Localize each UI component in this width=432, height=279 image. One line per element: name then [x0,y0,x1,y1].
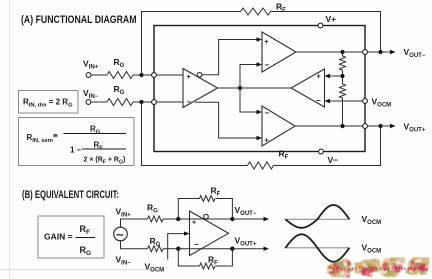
svg-text:VIN−: VIN− [83,88,99,100]
svg-text:+: + [192,220,196,227]
formula box RIN dm [19,91,79,114]
svg-text:VOCM: VOCM [362,243,382,255]
arrowhead into A3 - [257,110,263,114]
wire arrow VOUT+ (B) [232,248,264,250]
arrowhead VOCM into B1 [184,231,190,235]
resistor divider upper R [340,56,346,70]
wire A1 upper output to A2 + input [202,40,257,75]
node + input (B) [176,217,180,221]
source VS [114,227,128,241]
terminal V+ on box top [318,23,323,28]
svg-text:RG: RG [80,245,92,257]
svg-text:RG: RG [114,84,125,96]
svg-text:−: − [316,96,321,105]
svg-text:GAIN =: GAIN = [44,232,73,242]
wire RF top to VOUT- node (B) [216,199,233,220]
node - input (B) [176,247,180,251]
B1 output node circle [204,214,209,219]
op-amp A1 input stage [183,69,218,108]
svg-text:VOUT−: VOUT− [235,205,257,217]
terminal VIN+ [86,73,91,78]
node junction VIN+ feedback [139,73,143,77]
A1 upper output node circle [197,73,202,78]
wire RG1 to pin VIN+ [133,74,154,76]
wire divider to mid node [342,70,344,84]
wire bottom feedback left vertical [142,102,248,166]
node VOUT+ external junction [378,124,382,128]
formula box GAIN [38,216,104,258]
wire summing node to error amp output [240,87,291,89]
terminal VIN- [86,100,91,105]
fraction bar nested [82,148,126,150]
arrowhead VOUT+ (B) [264,247,270,251]
svg-text:VIN+: VIN+ [116,207,132,219]
op-amp B1 [190,211,229,256]
node VOUT- (B) [230,217,234,221]
svg-text:VOCM: VOCM [362,214,382,226]
wire RF bottom to VOUT+ node [274,126,381,166]
wire top feedback left vertical [142,12,241,76]
svg-text:−: − [265,109,270,118]
wire A2 output to VOUT- pin [296,51,365,53]
svg-text:RF: RF [94,141,104,152]
op-amp A2 upper output amp [262,32,296,72]
faint baseline rule [0,269,155,271]
waveform sine lower [286,234,350,261]
wire RG2 to pin VIN- [133,101,154,103]
resistor RF bottom [248,162,274,169]
node VOUT- external junction [378,50,382,54]
IC boundary box U1 [154,26,365,152]
wire through amp to VOUT- node (B) [178,218,232,220]
svg-text:−: − [265,61,270,70]
wire RF bottom to VOUT+ node (B) [216,249,233,266]
wire source to RG2 (B) [121,240,148,249]
svg-text:(A) FUNCTIONAL DIAGRAM: (A) FUNCTIONAL DIAGRAM [21,14,137,26]
svg-text:VOUT+: VOUT+ [235,236,257,248]
arrowhead into A4 - [325,99,331,103]
wire RF top to VOUT- node [271,12,381,53]
fraction bar main [64,133,127,135]
wire divider top segment [342,52,344,56]
pin VIN- on box [152,100,157,105]
svg-text:RF: RF [208,255,218,267]
resistor RF top [241,8,271,15]
node divider top junction [340,50,344,54]
svg-text:VOCM: VOCM [372,97,392,109]
wire A1 lower output to A3 + input [195,102,257,138]
wire RG2 to - node (B) [163,248,178,250]
arrowhead VOUT+ [390,124,396,128]
svg-text:VIN−: VIN− [116,255,132,267]
wire through amp to VOUT+ node (B) [178,248,232,250]
formula box RIN sem [19,118,135,166]
pin VOUT+ on box [363,124,368,129]
svg-text:RG: RG [147,203,158,215]
wire VIN+ terminal to RG1 [91,74,107,76]
wire arrow VOUT+ [381,125,391,127]
resistor divider lower R [340,84,346,98]
wire divider mid to A4 + input [330,75,343,77]
svg-text:RIN, sem≅: RIN, sem≅ [27,133,58,144]
op-amp A3 lower output amp [262,106,295,146]
waveform axis upper [284,218,349,220]
arrowhead into A2 + [257,37,263,41]
wire VIN- terminal to RG2 [91,101,107,103]
page edge tint line [9,0,11,279]
arrowhead into A2 - [257,62,263,66]
svg-text:RF: RF [80,224,91,236]
svg-text:+: + [317,74,321,81]
arrowhead VOUT- [390,50,396,54]
wire A1 output to summing node [218,87,241,89]
arrowhead into A3 + [257,136,263,140]
resistor RG2 [107,99,133,106]
svg-text:V−: V− [328,155,339,165]
feedback RF bottom loop (B) [178,249,199,266]
svg-text:VIN+: VIN+ [83,59,99,71]
resistor RG1 [107,72,133,79]
wire divider bottom segment [342,98,344,126]
svg-text:2 × (RF + RG): 2 × (RF + RG) [84,157,126,166]
wire summing node down to A3 - input [240,88,257,112]
svg-text:VOCM: VOCM [145,262,165,274]
wire RG1 to + node (B) [163,218,178,220]
op-amp A4 common-mode error amp (points left) [291,69,325,107]
wire arrow VOUT- [381,51,391,53]
node summing junction [238,86,242,90]
wire pin to op-amp A1 - input [156,101,183,103]
svg-text:∼: ∼ [116,230,124,241]
resistor RF bottom (B) [200,263,215,269]
svg-text:+: + [265,138,269,145]
fraction bar GAIN [76,237,96,239]
svg-text:1 −: 1 − [70,146,82,155]
wire pin to op-amp A1 + input [156,74,183,76]
wire A3 output to VOUT+ pin [295,125,365,127]
feedback RF top loop (B) [178,199,199,220]
pin VOCM on box [363,99,368,104]
terminal V- on box bottom [319,149,324,154]
wire summing node up to A2 - input [240,65,257,89]
resistor RF top (B) [200,196,215,202]
arrowhead into A4 + [325,74,331,78]
node VOUT+ (B) [230,247,234,251]
svg-text:V+: V+ [326,14,337,24]
node divider bottom junction [340,124,344,128]
resistor RG1 (B) [148,216,163,222]
arrowhead VOUT- (B) [264,217,270,221]
wire VOUT- pin to output node [367,51,380,53]
svg-text:(B) EQUIVALENT CIRCUIT:: (B) EQUIVALENT CIRCUIT: [22,189,119,201]
svg-text:RG: RG [114,57,125,69]
wire VOCM pin to A4 - input [330,100,365,102]
svg-text:VOUT+: VOUT+ [404,122,426,134]
svg-text:RF: RF [211,186,221,198]
svg-text:VOUT−: VOUT− [404,47,426,59]
node junction VIN- feedback [139,100,143,104]
svg-text:+: + [187,74,191,81]
pin VOUT- on box [363,50,368,55]
node divider midpoint [340,74,344,78]
svg-text:RG: RG [150,236,161,248]
waveform axis lower [284,247,349,249]
wire VOCM input (B) [168,234,184,260]
wire source to RG1 (B) [121,219,148,228]
svg-text:+: + [265,39,269,46]
svg-text:−: − [194,240,199,249]
wire arrow VOUT- (B) [232,218,264,220]
waveform sine upper [286,205,350,228]
wire VOUT+ pin to output node [367,125,380,127]
svg-text:RF: RF [279,149,289,161]
resistor RG2 (B) [148,246,163,252]
svg-text:−: − [187,98,192,107]
svg-text:RIN, dm = 2 RG: RIN, dm = 2 RG [23,98,73,109]
pin VIN+ on box [152,73,157,78]
